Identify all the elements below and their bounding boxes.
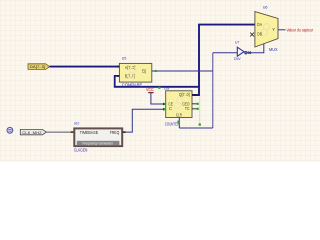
svg-text:DA[7..0]: DA[7..0] [30, 64, 46, 69]
wire CLR to vertical net [179, 127, 213, 129]
green square C pin [164, 108, 166, 110]
svg-text:U5: U5 [122, 56, 127, 61]
arrowhead C pin [163, 108, 166, 111]
svg-text:Q[7..0]: Q[7..0] [179, 92, 190, 97]
green square EQ stub [155, 70, 157, 72]
wire bus counter Q to mux DA [192, 25, 255, 95]
svg-text:CLKGEN: CLKGEN [74, 147, 88, 152]
svg-text:Y: Y [272, 27, 275, 32]
wire vertical net [212, 53, 214, 128]
pin stub timebase input [71, 131, 74, 133]
wire mux Y output [278, 29, 286, 31]
wire EQ to vertical net [152, 70, 213, 72]
svg-text:DA: DA [257, 22, 262, 27]
green square on CLR wire [199, 123, 201, 125]
wire inverter input [213, 52, 238, 54]
svg-text:U10: U10 [74, 121, 80, 126]
svg-text:COUNTER: COUNTER [165, 122, 180, 127]
svg-text:DB: DB [257, 32, 262, 37]
svg-text:Valeur du capteur: Valeur du capteur [287, 28, 314, 33]
svg-text:C: C [169, 106, 172, 111]
svg-text:TIMEBASE: TIMEBASE [80, 130, 99, 135]
x mark on select wire [248, 51, 251, 54]
pin CLR [178, 118, 180, 129]
svg-text:VCC: VCC [146, 87, 154, 92]
wire timebase FREQ to counter C [123, 109, 166, 132]
pin stub B [117, 75, 119, 77]
pin stub EQ [152, 70, 156, 72]
svg-text:DIV: DIV [234, 57, 241, 61]
svg-text:Frequency Generator: Frequency Generator [83, 142, 114, 146]
svg-text:CLR: CLR [176, 113, 182, 118]
svg-text:COMPARE: COMPARE [122, 82, 143, 87]
timebase U10 [74, 121, 122, 153]
svg-text:FREQ: FREQ [110, 130, 119, 135]
wire bus DA port to comparator A [50, 66, 120, 68]
svg-text:U9: U9 [164, 85, 170, 90]
svg-text:EQ: EQ [142, 68, 147, 73]
counter U9 [164, 85, 192, 126]
svg-text:MUX: MUX [269, 47, 278, 52]
green square CEO pin [197, 103, 199, 105]
wire mux select [247, 44, 264, 53]
svg-text:TC: TC [185, 106, 190, 111]
inverter U7 [234, 41, 247, 62]
arrowhead CE pin [163, 103, 166, 106]
pin stub timebase FREQ output [123, 131, 126, 133]
pin stub TC [192, 108, 197, 110]
no-connect X on DB pin [250, 33, 254, 37]
green square CE pin [164, 103, 166, 105]
green square CLR pin [177, 121, 179, 123]
hierarchical connector circle [7, 127, 13, 133]
svg-text:U7: U7 [235, 41, 239, 45]
green square near U9 [158, 87, 160, 89]
pin stub A [117, 66, 119, 68]
erc light green vertical line [199, 97, 201, 124]
VCC power symbol [146, 87, 166, 104]
pin stub Q [192, 94, 198, 96]
port CLK_MHZ [20, 129, 46, 134]
svg-text:U6: U6 [263, 5, 269, 10]
wire bus comparator B loop [115, 76, 199, 87]
wire CLK_MHZ port to timebase [46, 131, 71, 133]
svg-text:CLK_MHZ: CLK_MHZ [22, 130, 42, 135]
green square TC pin [197, 108, 199, 110]
comparator U5 [119, 56, 151, 88]
pin stub CEO [192, 103, 197, 105]
port DA[7..0] [28, 64, 50, 70]
mux U6 [255, 5, 278, 52]
